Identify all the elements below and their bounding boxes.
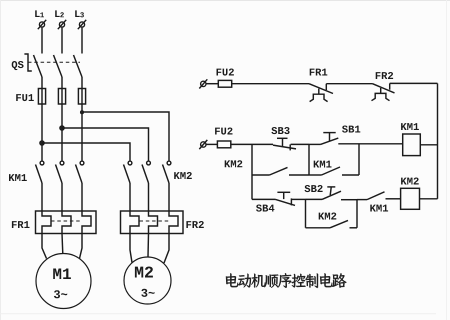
thermal relay FR2 heater 1 [130, 211, 139, 234]
thermal relay FR1 linkage dashes [51, 220, 82, 222]
contactor KM2 main contact 3 [163, 161, 171, 183]
switch QS linkage bracket [24, 54, 31, 71]
switch QS pole 3 blade [74, 55, 83, 77]
contactor KM2 aux contact (NO) row2 [252, 167, 309, 175]
node junction L2 branch [60, 126, 65, 131]
thermal contact FR1 label [310, 69, 328, 76]
thermal relay FR1 heater 3 [82, 211, 91, 234]
wire FR1 to M1 left [42, 234, 47, 259]
wire KM2 contact 2 to FR2 [148, 183, 150, 211]
contactor KM1 aux contact label row3 [370, 205, 388, 212]
wire L1 to QS [41, 28, 43, 54]
wire SB2 to node E [341, 199, 357, 201]
pushbutton SB1 label [342, 126, 360, 133]
wire FU1 1 down [41, 104, 43, 161]
pushbutton SB2 (NO) [306, 187, 342, 200]
node C vertical [358, 144, 360, 175]
wire SB4 to node D [291, 198, 305, 200]
fuse FU1 element 3 [78, 89, 85, 105]
thermal contact FR1 [309, 84, 333, 102]
contactor KM2 main contacts label [174, 172, 192, 179]
pushbutton SB2 label [305, 185, 323, 192]
coil KM1 [403, 134, 421, 156]
pushbutton SB1 (NO) [309, 133, 338, 145]
contactor KM1 main contacts label [9, 174, 27, 181]
wire KM1 contact 1 to FR1 [41, 183, 43, 211]
fuse FU2 row2 [206, 141, 231, 148]
fuse FU1 element 1 [38, 89, 45, 105]
contactor KM2 aux contact label row3 [319, 213, 337, 220]
contactor KM1 aux contact (NO) row3 [357, 192, 401, 200]
fuse FU2 row1 label [217, 69, 234, 76]
terminal L2 [58, 20, 66, 29]
wire FU1 3 down [81, 104, 83, 161]
thermal relay FR1 label [12, 221, 30, 228]
wire FR1 to M1 right [80, 234, 83, 259]
motor M2 label [135, 267, 153, 278]
motor M1 label [53, 269, 71, 280]
fuse FU2 row1 [206, 80, 232, 87]
thermal relay FR1 heater 1 [42, 211, 51, 234]
contactor KM1 main contact 3 [76, 161, 84, 183]
coil KM2 [401, 188, 420, 209]
switch QS pole 2 blade [54, 55, 63, 77]
caption text 电动机顺序控制电路 [226, 273, 347, 288]
wire L2 to QS [61, 28, 63, 54]
contactor KM1 aux contact (NO) row2 [309, 167, 359, 175]
thermal relay FR2 box [121, 211, 184, 234]
thermal relay FR2 linkage dashes [140, 220, 170, 222]
thermal relay FR1 box [36, 211, 97, 234]
contactor KM2 aux contact (NO) row3 [306, 220, 358, 227]
terminal control row1 [199, 79, 207, 88]
contactor KM2 main contact 1 [124, 161, 132, 183]
motor M2 circle [124, 257, 171, 304]
contactor KM2 aux contact label row2 [225, 160, 243, 167]
wire L3 to QS [81, 28, 83, 54]
fuse FU1 element 2 [58, 89, 65, 105]
node junction L3 branch [80, 111, 83, 114]
node E vertical [356, 200, 358, 228]
pushbutton SB4 (NC) [276, 192, 296, 205]
wire node A down to row3 [251, 144, 253, 199]
motor M2 phase label [141, 289, 154, 297]
wire branch L1 to M2 column [42, 143, 130, 161]
wire KM1 contact 2 to FR1 [61, 183, 63, 211]
wire KM2 contact 1 to FR2 [129, 183, 131, 211]
node junction L1 branch [40, 141, 45, 146]
switch QS label [12, 61, 24, 70]
motor M1 phase label [54, 290, 67, 298]
contactor KM1 main contact 1 [36, 161, 44, 183]
node D vertical [305, 199, 307, 227]
thermal relay FR2 heater 3 [169, 211, 178, 234]
wire branch L3 to M2 column [82, 112, 169, 161]
wire FU1 2 down [61, 104, 63, 161]
thermal relay FR2 heater 2 [149, 211, 158, 234]
pushbutton SB4 label [256, 205, 274, 212]
wire QS pole 1 to FU1 [41, 77, 43, 89]
pushbutton SB3 label [271, 127, 289, 134]
wire right bus [437, 83, 439, 198]
coil KM2 label [401, 178, 419, 185]
thermal contact FR2 [372, 83, 395, 100]
node B vertical [308, 144, 310, 175]
terminal L3 label [75, 10, 84, 17]
wire KM2 contact 3 to FR2 [168, 183, 170, 211]
motor M1 circle [36, 254, 91, 309]
wire FR2 to M2 right [164, 234, 169, 264]
wire FR1 to M1 middle [61, 234, 64, 255]
switch QS pole 1 blade [34, 55, 43, 77]
wire QS pole 2 to FU1 [61, 77, 63, 89]
thermal contact FR2 label [376, 72, 393, 79]
wire branch L2 to M2 column [62, 128, 149, 161]
switch QS linkage dashed line [28, 61, 80, 63]
wire KM1 coil to bus [420, 144, 437, 146]
pushbutton SB3 (NC) [252, 138, 296, 150]
wire FR2 contact to right bus [390, 82, 438, 84]
contactor KM2 main contact 2 [142, 161, 150, 183]
fuse FU1 label [16, 94, 34, 101]
wire node A corner to SB4 [252, 198, 276, 200]
wire SB3 to node B [291, 143, 309, 145]
wire FR2 to M2 left [130, 234, 132, 263]
contactor KM1 aux contact label row2 [314, 161, 332, 168]
terminal L2 label [55, 10, 64, 17]
terminal L1 label [35, 10, 44, 17]
coil KM1 label [401, 123, 419, 130]
wire KM1 contact 3 to FR1 [81, 183, 83, 211]
wire FR1 contact to FR2 contact [326, 83, 372, 85]
wire KM2 coil to bus [420, 198, 438, 200]
thermal relay FR2 label [186, 221, 203, 228]
thermal relay FR1 heater 2 [62, 211, 71, 234]
wire FR2 to M2 middle [147, 234, 150, 258]
terminal control row2 [199, 140, 207, 149]
wire QS pole 3 to FU1 [81, 77, 83, 89]
wire SB1 to KM1 coil [338, 143, 402, 145]
wire FU2 to node A [231, 143, 252, 145]
fuse FU2 row2 label [215, 128, 232, 135]
terminal L1 [38, 20, 46, 29]
wire FU2 to FR1 contact [232, 83, 309, 85]
contactor KM1 main contact 2 [56, 161, 64, 183]
terminal L3 [78, 20, 86, 29]
